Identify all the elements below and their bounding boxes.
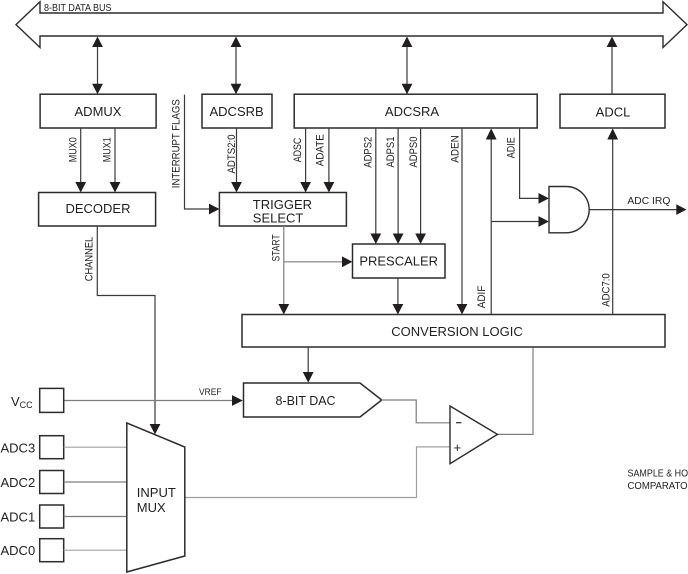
svg-text:CONVERSION LOGIC: CONVERSION LOGIC <box>391 324 522 339</box>
bus-ADCSRB double arrow <box>231 37 242 95</box>
svg-text:ADC0: ADC0 <box>1 543 36 558</box>
wire MUX1 <box>110 128 121 193</box>
register ADCSRB <box>202 94 272 128</box>
svg-text:VREF: VREF <box>199 387 222 397</box>
wire mux-out-to-comparator-plus <box>185 447 450 498</box>
svg-text:ADC IRQ: ADC IRQ <box>627 195 670 207</box>
svg-text:ADATE: ADATE <box>315 134 327 166</box>
svg-text:ADC1: ADC1 <box>1 509 36 524</box>
svg-text:ADIF: ADIF <box>476 286 488 309</box>
block DECODER <box>39 193 156 227</box>
pin ADC0 box <box>40 539 64 562</box>
block PRESCALER <box>353 244 446 278</box>
svg-text:ADTS2:0: ADTS2:0 <box>226 135 238 174</box>
block TRIGGER SELECT <box>219 193 346 227</box>
comparator U2 <box>450 406 498 464</box>
wire ADATE <box>324 128 335 193</box>
wire START <box>278 226 352 315</box>
pin VCC box <box>40 388 64 412</box>
pin ADC1 box <box>40 505 64 528</box>
block CONVERSION LOGIC <box>242 315 665 348</box>
svg-text:INTERRUPT FLAGS: INTERRUPT FLAGS <box>171 99 183 188</box>
svg-text:ADSC: ADSC <box>292 138 304 163</box>
svg-text:8-BIT DATA BUS: 8-BIT DATA BUS <box>44 3 112 14</box>
wire ADC0-to-mux <box>64 549 127 551</box>
svg-text:ADPS1: ADPS1 <box>385 137 397 168</box>
wire ADPS0 <box>415 128 426 244</box>
wire MUX0 <box>75 128 86 193</box>
svg-text:ADMUX: ADMUX <box>75 104 122 119</box>
svg-text:ADPS0: ADPS0 <box>408 137 420 168</box>
block 8-BIT DAC <box>244 383 382 417</box>
and-gate U1 <box>549 187 589 233</box>
wire DAC-to-comparator-minus <box>382 400 450 423</box>
svg-text:8-BIT DAC: 8-BIT DAC <box>276 393 336 408</box>
bus-ADMUX double arrow <box>92 37 103 95</box>
svg-text:DECODER: DECODER <box>65 201 130 216</box>
wire ADIF <box>486 128 549 314</box>
register ADMUX <box>40 94 156 128</box>
svg-text:PRESCALER: PRESCALER <box>359 254 438 269</box>
wire VREF <box>64 395 243 406</box>
wire ADC IRQ output <box>589 204 686 215</box>
block INPUT MUX <box>127 423 185 572</box>
wire conversion-logic-to-DAC <box>303 347 314 383</box>
wire ADPS1 <box>393 128 404 244</box>
svg-text:MUX: MUX <box>137 500 166 515</box>
wire ADIE <box>520 128 549 204</box>
wire prescaler-to-conversion-logic <box>393 278 404 315</box>
register ADCL <box>560 94 665 128</box>
svg-text:MUX1: MUX1 <box>101 137 113 162</box>
svg-text:ADC7:0: ADC7:0 <box>600 273 612 307</box>
svg-text:ADIE: ADIE <box>506 137 518 158</box>
wire ADC1-to-mux <box>64 516 127 518</box>
svg-text:COMPARATOR: COMPARATOR <box>628 480 688 492</box>
8-bit data bus double-arrow outline <box>16 2 687 48</box>
wire ADTS2:0 <box>231 128 242 193</box>
bus-ADCSRA double arrow <box>402 37 413 95</box>
wire INTERRUPT FLAGS <box>185 95 220 215</box>
svg-text:ADC2: ADC2 <box>1 475 36 490</box>
svg-text:ADCL: ADCL <box>596 104 631 119</box>
wire ADC2-to-mux <box>64 481 127 483</box>
pin ADC2 box <box>40 471 64 494</box>
wire ADC7:0 <box>607 128 618 314</box>
wire ADPS2 <box>370 128 381 244</box>
svg-text:ADEN: ADEN <box>449 135 461 163</box>
svg-text:INPUT: INPUT <box>137 485 176 500</box>
svg-text:START: START <box>270 234 282 261</box>
svg-text:SELECT: SELECT <box>253 211 304 226</box>
svg-text:CHANNEL: CHANNEL <box>84 237 96 282</box>
wire CHANNEL <box>97 226 160 434</box>
svg-text:ADCSRB: ADCSRB <box>210 104 264 119</box>
ADCL-to-bus up arrow <box>607 37 618 95</box>
svg-text:ADC3: ADC3 <box>1 440 36 455</box>
svg-text:+: + <box>454 440 462 455</box>
wire ADSC <box>300 128 311 193</box>
wire comparator-to-conversion-logic <box>498 348 534 435</box>
svg-text:MUX0: MUX0 <box>68 137 80 162</box>
wire ADEN <box>457 128 468 315</box>
svg-text:ADCSRA: ADCSRA <box>385 104 440 119</box>
register ADCSRA <box>294 94 537 128</box>
svg-text:SAMPLE & HOLD: SAMPLE & HOLD <box>628 467 688 479</box>
svg-text:ADPS2: ADPS2 <box>363 137 375 168</box>
pin ADC3 box <box>40 436 64 459</box>
wire ADC3-to-mux <box>64 446 127 448</box>
